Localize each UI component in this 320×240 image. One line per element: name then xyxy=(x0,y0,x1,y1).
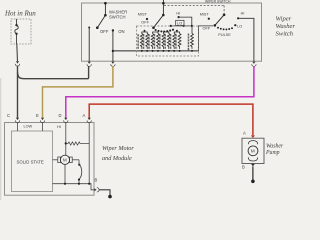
svg-text:OFF: OFF xyxy=(141,20,149,24)
ground wire module xyxy=(99,190,110,196)
top brackets xyxy=(142,32,147,34)
connector washer off exit xyxy=(87,62,91,67)
svg-text:OFF: OFF xyxy=(100,29,109,34)
left pulse contact dots xyxy=(155,29,175,33)
left LO contact boxed xyxy=(176,20,184,25)
svg-text:C: C xyxy=(7,113,10,118)
motor bottom lead xyxy=(64,164,66,183)
svg-text:Pump: Pump xyxy=(265,150,280,156)
small bus under LO/HI xyxy=(171,25,192,27)
svg-text:MIST: MIST xyxy=(200,12,210,16)
svg-text:and Module: and Module xyxy=(102,155,132,162)
svg-text:M: M xyxy=(63,158,67,163)
wiper motor xyxy=(60,155,69,164)
wire tan washer output xyxy=(43,66,113,118)
svg-text:ON: ON xyxy=(118,29,124,34)
svg-text:B: B xyxy=(95,178,98,183)
resistors xyxy=(140,26,193,49)
link bus to OFF contact xyxy=(199,26,214,51)
washer ON contact xyxy=(112,29,114,31)
stub E xyxy=(42,123,44,132)
circuit breaker xyxy=(15,19,18,44)
svg-text:Wiper Motor: Wiper Motor xyxy=(102,145,134,152)
svg-text:HI: HI xyxy=(57,125,61,129)
left rotary wiper switch xyxy=(162,0,164,15)
connector washer on exit xyxy=(111,62,115,67)
fuse block dashed box xyxy=(11,19,31,44)
wire to resistor bus xyxy=(113,50,199,52)
solid state box xyxy=(12,131,53,192)
svg-text:Switch: Switch xyxy=(276,31,294,38)
wire branch to washer switch xyxy=(18,66,89,79)
wiper washer switch box xyxy=(82,3,262,61)
stub C xyxy=(17,123,19,132)
internal resistor xyxy=(66,142,89,145)
svg-text:LOW: LOW xyxy=(24,125,33,129)
wiper motor module box xyxy=(5,123,95,196)
internal ground bus xyxy=(53,184,95,190)
resistor bottom bus dots xyxy=(141,50,193,52)
right rotary wiper switch xyxy=(223,14,226,17)
svg-text:Hot in Run: Hot in Run xyxy=(4,10,36,18)
svg-text:SOLID STATE: SOLID STATE xyxy=(17,160,44,165)
svg-text:SWITCH: SWITCH xyxy=(109,14,126,19)
mechanical dashed link xyxy=(164,5,224,7)
svg-text:A: A xyxy=(243,131,246,136)
resistor network dashed box xyxy=(137,26,199,56)
svg-text:D: D xyxy=(59,113,62,118)
internal D wire xyxy=(65,123,67,156)
resistor value labels xyxy=(137,34,189,51)
faint page edge line xyxy=(0,78,2,200)
svg-text:HI: HI xyxy=(176,12,180,16)
svg-text:PULSE: PULSE xyxy=(218,33,231,37)
svg-text:E: E xyxy=(36,113,39,118)
svg-text:Washer: Washer xyxy=(276,23,296,30)
right LO contact xyxy=(234,24,236,26)
right pulse contact dots xyxy=(217,27,233,31)
svg-text:LO: LO xyxy=(177,22,182,26)
svg-text:HI: HI xyxy=(241,12,245,16)
connector HI exit xyxy=(252,62,256,67)
svg-text:LO: LO xyxy=(237,24,242,28)
wire magenta pulse xyxy=(66,66,254,118)
svg-text:OFF: OFF xyxy=(203,26,211,30)
svg-text:M: M xyxy=(251,149,255,155)
ground dot module xyxy=(108,195,112,199)
connector on hot feed xyxy=(15,61,19,66)
wire hot feed to terminal C xyxy=(17,66,19,119)
svg-text:Wiper: Wiper xyxy=(276,16,292,23)
bracket center dots xyxy=(144,30,178,32)
wire hot feed upper xyxy=(16,44,19,61)
park switch xyxy=(78,160,80,164)
washer OFF output wire xyxy=(88,27,90,29)
washer pump xyxy=(242,131,264,184)
svg-text:Washer: Washer xyxy=(266,143,284,149)
washer switch xyxy=(97,3,105,28)
svg-text:MIST: MIST xyxy=(138,12,148,16)
internal A wire xyxy=(88,123,90,184)
svg-text:B: B xyxy=(242,164,245,169)
svg-text:WIPER SWITCH: WIPER SWITCH xyxy=(205,0,231,3)
wire red washer pump xyxy=(89,104,253,135)
svg-text:A: A xyxy=(83,113,86,118)
